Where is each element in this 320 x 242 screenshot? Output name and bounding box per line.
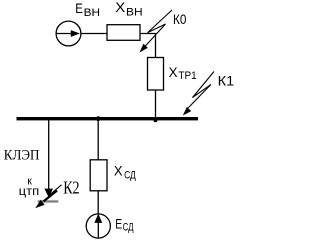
wire: X_TR1 to busbar <box>155 90 157 118</box>
svg-text:К0: К0 <box>173 11 187 27</box>
label X_SD <box>114 162 136 181</box>
cable end arrow (to TsTP) <box>44 189 53 198</box>
reactance X_SD <box>90 160 107 191</box>
label E_VN <box>75 0 100 19</box>
busbar <box>17 117 199 120</box>
svg-text:СД: СД <box>124 169 136 181</box>
svg-text:СД: СД <box>123 221 134 233</box>
svg-text:Х: Х <box>114 162 123 178</box>
wire: cable feeder KLEP down from busbar <box>48 120 50 190</box>
fault marker K1 zigzag arrow <box>183 72 214 116</box>
svg-text:КЛЭП: КЛЭП <box>4 148 40 164</box>
svg-text:Х: Х <box>169 64 179 80</box>
svg-text:ВН: ВН <box>126 6 143 18</box>
svg-text:ВН: ВН <box>84 7 100 19</box>
wire: busbar down to X_SD <box>97 120 99 160</box>
resistor X_VN <box>107 25 140 41</box>
source E_VN circle <box>56 21 81 46</box>
svg-text:цтп: цтп <box>19 184 40 198</box>
fault marker K0 zigzag arrow <box>140 10 173 53</box>
svg-text:К1: К1 <box>218 73 235 89</box>
svg-text:ТР1: ТР1 <box>178 70 196 82</box>
label X_TR1 <box>169 64 197 82</box>
fault marker K2 zigzag arrow <box>35 185 61 208</box>
svg-text:Е: Е <box>75 0 83 16</box>
wire: X_SD to source E_SD <box>97 191 99 214</box>
reactance X_TR1 <box>148 58 164 91</box>
label X_VN <box>115 0 142 18</box>
junction dot at busbar (TR1 feeder) <box>154 118 158 122</box>
source E_SD circle <box>86 214 110 238</box>
cable end grey bar <box>38 200 59 202</box>
source E_VN arrow <box>57 30 80 37</box>
svg-text:К2: К2 <box>63 178 79 198</box>
svg-text:Е: Е <box>115 216 122 232</box>
wire: X_VN to corner and down to X_TR1 <box>140 34 156 59</box>
svg-text:Х: Х <box>115 0 126 15</box>
wire: source to X_VN <box>81 33 107 35</box>
junction dot at busbar (SD feeder) <box>96 116 101 121</box>
label k TsTP <box>19 175 40 198</box>
source E_SD arrow <box>94 214 102 238</box>
label E_SD <box>115 216 134 234</box>
